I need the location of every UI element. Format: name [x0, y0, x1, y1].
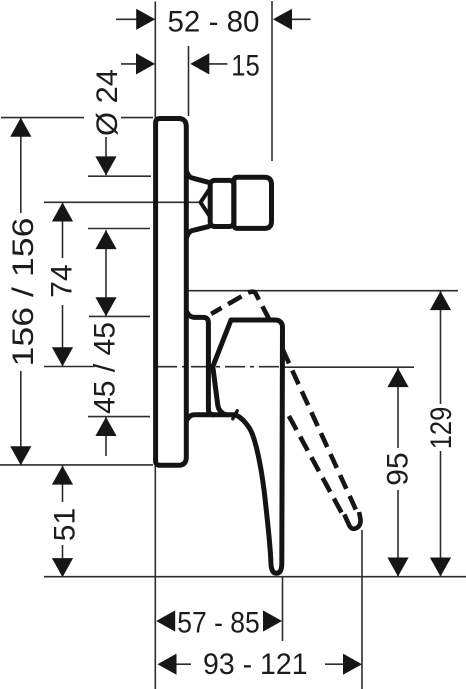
svg-text:45 / 45: 45 / 45: [89, 322, 122, 414]
arrow 51 up: [52, 466, 73, 485]
wire: 51 dimension line x=62.5: [62, 466, 64, 577]
wire: handle center extension right y=367.2: [282, 366, 414, 368]
lever top and right edge with tip: [231, 320, 283, 573]
wire: 45 lower arrow tail x=106: [105, 417, 107, 456]
arrow 129 up: [430, 291, 451, 310]
arrow 45 upper down: [95, 297, 116, 316]
wire: 74 dimension line x=62.5: [62, 203, 64, 367]
arrow 45 lower up: [95, 417, 116, 436]
wire: dashed tip top extension y=290.7: [189, 290, 459, 292]
arrow 129 down: [430, 558, 451, 577]
arrow 156/156 down: [10, 446, 31, 465]
valve sleeve: [187, 312, 214, 414]
wire: vertical line x=362 (dashed lever ext bottom): [361, 530, 363, 689]
arrow 52-80 right: [273, 9, 292, 30]
wire: vertical line x=272 (cap right face ext): [271, 1, 273, 161]
wire: dia 24 leader line x=106: [105, 136, 107, 175]
wire: 45 upper dimension line x=106: [105, 230, 107, 316]
wire: wall face vertical line x=155: [154, 2, 156, 689]
arrow 45 upper up: [95, 230, 116, 249]
svg-text:52 - 80: 52 - 80: [168, 6, 260, 39]
mixer body: thick outlines: [156, 119, 283, 574]
escutcheon plate: [156, 119, 187, 466]
wire: lever tip bottom extension y=576.7: [44, 576, 466, 578]
wire: 15 arrow tails: [121, 63, 228, 65]
svg-text:129: 129: [425, 407, 458, 450]
wire: vertical line x=282.5 (lever tip ext bottom): [282, 577, 284, 641]
svg-text:74: 74: [46, 264, 79, 297]
wire: plate bottom extension y=464.9: [0, 464, 153, 466]
svg-text:95: 95: [382, 452, 415, 485]
svg-text:156 / 156: 156 / 156: [7, 218, 40, 367]
dashed lever tip hook: [344, 512, 360, 529]
arrow 57-85 left: [156, 610, 175, 631]
svg-text:15: 15: [231, 49, 260, 82]
wire: 93-121 arrow tails: [177, 663, 344, 665]
arrow 95 up: [387, 368, 408, 387]
wire: handle centerline dash-dot through body: [157, 366, 281, 368]
svg-text:57 - 85: 57 - 85: [177, 606, 260, 639]
connector cylinder: [210, 180, 234, 226]
wire: sleeve top extension y=316.4: [89, 315, 150, 317]
wire: 52-80 arrow tails: [116, 18, 311, 20]
lever cone left slant: [213, 320, 231, 367]
arrow dia24 down: [95, 156, 116, 175]
connector chevron: [201, 189, 210, 217]
sleeve / lever underside: [187, 415, 236, 420]
dashed lever raised tip: [211, 292, 269, 319]
wire: sleeve bottom extension y=416.6: [88, 416, 150, 418]
lever cone lower left edge: [213, 367, 226, 415]
svg-text:93 - 121: 93 - 121: [203, 648, 308, 681]
svg-text:51: 51: [49, 508, 82, 541]
wire: connector top extension y=176.2: [88, 175, 151, 177]
connector end cap: [234, 177, 272, 228]
arrow 74 down: [52, 347, 73, 366]
wire: 95 dimension line x=398: [397, 368, 399, 576]
wire: vertical line x=188.5 (15 dim right ext): [188, 46, 190, 116]
wire: handle center extension left y=366.5: [44, 366, 95, 368]
arrow 93-121 left: [158, 654, 177, 675]
wire: connector bottom extension y=228.5: [88, 228, 150, 230]
connector neck top edge: [187, 173, 209, 183]
dashed lever blade inner edge: [289, 416, 342, 513]
arrow 52-80 left: [136, 9, 155, 30]
underside notch tick: [233, 411, 237, 419]
wire: 129 dimension line x=440.5: [440, 291, 442, 576]
arrow 95 down: [387, 558, 408, 577]
dashed lever blade outer edge: [283, 350, 356, 510]
connector neck bottom edge: [187, 226, 209, 235]
svg-text:Ø 24: Ø 24: [91, 69, 124, 136]
wire: connector center extension y=202.3: [44, 201, 200, 203]
arrow 93-121 right: [343, 654, 362, 675]
wire: 156/156 dimension line x=20.8: [20, 118, 22, 465]
dashed lever alternate position: [211, 292, 360, 529]
arrow 51 down: [52, 558, 73, 577]
arrow 15 right: [190, 53, 209, 74]
arrow 57-85 right: [263, 610, 282, 631]
arrow 74 up: [52, 203, 73, 222]
arrow 15 left: [136, 53, 155, 74]
wire: plate top extension y=117.6: [1, 117, 153, 119]
white gaps behind rotated labels that sit on lines: [8, 107, 456, 545]
arrow 156/156 up: [10, 118, 31, 137]
